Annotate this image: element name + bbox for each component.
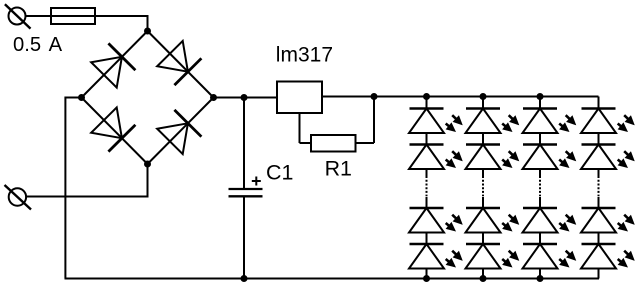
svg-text:0.5: 0.5 <box>13 34 41 56</box>
svg-text:R1: R1 <box>325 156 352 180</box>
svg-text:A: A <box>49 34 63 56</box>
svg-text:lm317: lm317 <box>276 44 333 67</box>
svg-text:C1: C1 <box>266 160 293 184</box>
